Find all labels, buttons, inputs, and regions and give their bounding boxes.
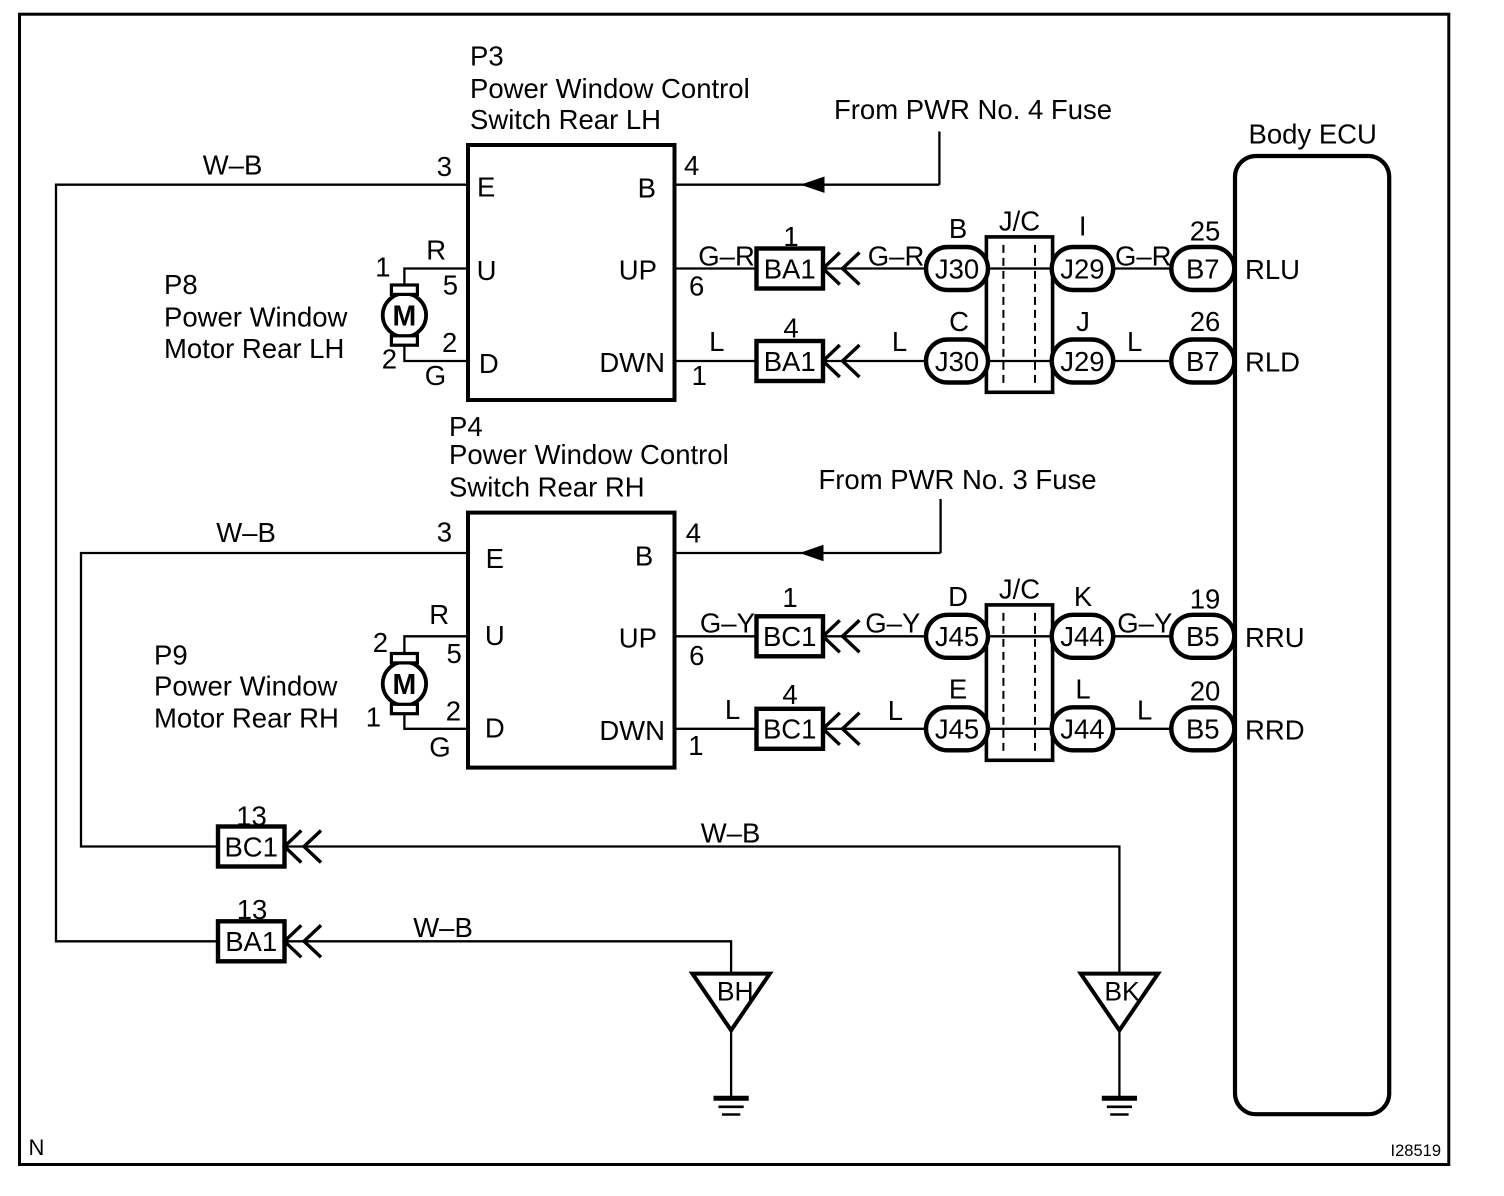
- wire label G-R (left): [698, 241, 755, 272]
- svg-text:BC1: BC1: [763, 621, 817, 652]
- svg-text:G–R: G–R: [868, 241, 925, 272]
- svg-text:RLU: RLU: [1245, 254, 1300, 285]
- svg-text:U: U: [485, 620, 505, 651]
- svg-text:BK: BK: [1104, 977, 1140, 1007]
- chevron arrows (BA1 row 1): [823, 253, 860, 285]
- svg-text:Switch Rear RH: Switch Rear RH: [449, 472, 645, 503]
- svg-text:I28519: I28519: [1391, 1142, 1441, 1160]
- svg-text:J30: J30: [935, 253, 979, 284]
- pin D: [479, 348, 499, 379]
- pin number 13 (BC1): [236, 801, 267, 832]
- svg-text:B7: B7: [1186, 253, 1220, 284]
- svg-text:6: 6: [689, 640, 704, 671]
- svg-text:Motor Rear RH: Motor Rear RH: [154, 703, 339, 734]
- svg-text:Motor Rear LH: Motor Rear LH: [164, 333, 344, 364]
- wire G : motor P9 pin 1 to P4 pin D: [404, 711, 468, 729]
- svg-text:J44: J44: [1060, 621, 1104, 652]
- node RRU: [1245, 622, 1305, 653]
- svg-text:J29: J29: [1060, 346, 1104, 377]
- svg-text:K: K: [1074, 581, 1093, 612]
- svg-text:1: 1: [375, 252, 390, 283]
- pin number 13 (BA1): [237, 894, 268, 925]
- svg-text:RRU: RRU: [1245, 622, 1305, 653]
- junction connector J30 pin B: [926, 247, 988, 290]
- label From PWR No. 4 Fuse: [834, 94, 1112, 125]
- svg-text:4: 4: [686, 517, 701, 548]
- label P8 Power Window Motor Rear LH: [164, 269, 348, 364]
- svg-text:2: 2: [373, 627, 388, 658]
- pin number 25: [1190, 215, 1221, 246]
- svg-text:Body ECU: Body ECU: [1249, 119, 1377, 150]
- svg-text:1: 1: [783, 221, 798, 252]
- label J/C (lower): [999, 574, 1040, 605]
- wire label L (right): [1127, 326, 1142, 357]
- pin letter D (J45): [948, 581, 968, 612]
- wire label L (row4 middle): [888, 695, 903, 726]
- pin number 2 (motor P8): [382, 344, 397, 375]
- connector BA1 pin 13: [218, 921, 285, 961]
- node RLU: [1245, 254, 1300, 285]
- svg-text:R: R: [426, 234, 446, 265]
- pin U: [477, 255, 497, 286]
- svg-text:P8: P8: [164, 269, 198, 300]
- wire W-B : BC1 13 to ground BK: [285, 847, 1120, 974]
- svg-text:Power Window: Power Window: [164, 302, 348, 333]
- pin B (P4): [635, 541, 653, 572]
- svg-text:G–Y: G–Y: [700, 607, 755, 638]
- pin number 5: [443, 270, 458, 301]
- pin DWN: [599, 347, 665, 378]
- wire W-B : P4 pin E to connector BC1 13: [81, 553, 468, 847]
- svg-text:Power Window: Power Window: [154, 671, 338, 702]
- wire label W-B (BC1 to BK): [701, 818, 761, 849]
- svg-text:L: L: [1127, 326, 1142, 357]
- node RLD: [1245, 347, 1300, 378]
- svg-text:L: L: [1075, 673, 1090, 704]
- svg-text:U: U: [477, 255, 497, 286]
- switch P4 box: [468, 513, 675, 768]
- svg-text:BC1: BC1: [224, 831, 278, 862]
- svg-text:BC1: BC1: [763, 714, 817, 745]
- svg-text:J29: J29: [1060, 253, 1104, 284]
- label From PWR No. 3 Fuse: [818, 464, 1096, 495]
- svg-text:3: 3: [437, 151, 452, 182]
- svg-text:B7: B7: [1186, 346, 1220, 377]
- wire label G (P9): [429, 732, 450, 763]
- pin letter L (J44): [1075, 673, 1090, 704]
- svg-text:19: 19: [1190, 583, 1221, 614]
- pin letter K (J44): [1074, 581, 1093, 612]
- svg-text:W–B: W–B: [701, 818, 761, 849]
- pin number 3 (P4): [437, 517, 452, 548]
- pin B: [638, 173, 656, 204]
- svg-text:1: 1: [692, 360, 707, 391]
- svg-text:G–Y: G–Y: [865, 607, 920, 638]
- svg-text:Power Window Control: Power Window Control: [449, 439, 729, 470]
- motor P9: [383, 654, 426, 714]
- connector B7 pin 25: [1171, 247, 1234, 290]
- svg-text:P9: P9: [154, 640, 188, 671]
- svg-text:BA1: BA1: [764, 346, 816, 377]
- wire label G-Y (middle): [865, 607, 920, 638]
- svg-text:M: M: [393, 669, 417, 701]
- svg-text:D: D: [479, 348, 499, 379]
- svg-text:RRD: RRD: [1245, 714, 1305, 745]
- svg-text:W–B: W–B: [216, 517, 276, 548]
- pin number 1 (BA1): [783, 221, 798, 252]
- svg-text:13: 13: [236, 801, 267, 832]
- svg-text:25: 25: [1190, 215, 1221, 246]
- svg-text:6: 6: [689, 271, 704, 302]
- ground BH: [692, 974, 769, 1115]
- wire label L (middle): [892, 326, 907, 357]
- switch P3 box: [468, 145, 675, 400]
- pin number 4 (BC1): [782, 679, 797, 710]
- svg-text:J/C: J/C: [999, 574, 1040, 605]
- wire L : P4 DWN to Body ECU RRD: [675, 728, 1234, 730]
- svg-text:J45: J45: [935, 714, 979, 745]
- chevron arrows (BA1 13): [285, 925, 322, 957]
- pin number 1 (P3 DWN): [692, 360, 707, 391]
- wire label R: [426, 234, 446, 265]
- pin UP: [619, 255, 657, 286]
- wire label G-R (right): [1115, 241, 1172, 272]
- connector B7 pin 26: [1171, 340, 1234, 383]
- pin letter B (J30): [949, 213, 967, 244]
- motor P8: [383, 285, 426, 345]
- svg-text:4: 4: [684, 150, 699, 181]
- svg-text:M: M: [393, 301, 417, 333]
- pin letter J (J29): [1076, 306, 1090, 337]
- pin number 4 (P4): [686, 517, 701, 548]
- pin number 26: [1190, 306, 1221, 337]
- svg-text:L: L: [892, 326, 907, 357]
- node RRD: [1245, 714, 1305, 745]
- wire G : motor P8 pin 2 to P3 pin D: [404, 344, 468, 362]
- svg-text:J44: J44: [1060, 714, 1104, 745]
- junction connector J44 pin L: [1052, 707, 1114, 750]
- svg-text:UP: UP: [619, 255, 657, 286]
- svg-text:N: N: [29, 1135, 45, 1160]
- svg-text:5: 5: [443, 270, 458, 301]
- label P3 Power Window Control Switch Rear LH: [470, 41, 750, 136]
- pin U (P4): [485, 620, 505, 651]
- pin number 3: [437, 151, 452, 182]
- svg-text:C: C: [949, 306, 969, 337]
- svg-text:5: 5: [447, 638, 462, 669]
- svg-text:J/C: J/C: [999, 206, 1040, 237]
- wire B : P3 pin B from PWR No.4 fuse: [675, 132, 940, 193]
- ground BK: [1081, 974, 1158, 1115]
- pin D (P4): [485, 713, 505, 744]
- connector BC1 pin 1: [757, 616, 824, 656]
- label P9 Power Window Motor Rear RH: [154, 640, 339, 734]
- wire label W-B (P4): [216, 517, 276, 548]
- svg-text:2: 2: [442, 327, 457, 358]
- label Body ECU: [1249, 119, 1377, 150]
- svg-text:L: L: [888, 695, 903, 726]
- junction connector J30 pin C: [926, 340, 988, 383]
- pin letter I (J29): [1079, 211, 1087, 242]
- wire label L (row4 right): [1137, 695, 1152, 726]
- chevron arrows (BC1 13): [285, 831, 322, 863]
- pin number 1 (motor P9): [366, 701, 381, 732]
- wire L : P3 DWN to Body ECU RLD: [675, 360, 1234, 362]
- pin number 1 (BC1): [782, 582, 797, 613]
- svg-text:DWN: DWN: [599, 715, 665, 746]
- svg-text:B: B: [635, 541, 653, 572]
- svg-text:UP: UP: [619, 623, 657, 654]
- svg-text:From PWR No. 4 Fuse: From PWR No. 4 Fuse: [834, 94, 1112, 125]
- connector BA1 pin 4: [757, 341, 824, 381]
- svg-text:B: B: [949, 213, 967, 244]
- pin E: [477, 172, 495, 203]
- pin E (P4): [486, 543, 504, 574]
- label J/C: [999, 206, 1040, 237]
- svg-text:BA1: BA1: [225, 926, 277, 957]
- svg-text:G–R: G–R: [698, 241, 755, 272]
- connector BA1 pin 1: [757, 249, 824, 289]
- wire label L (left): [709, 326, 724, 357]
- pin letter E (J45): [949, 673, 967, 704]
- svg-text:E: E: [486, 543, 504, 574]
- wire G-Y : P4 UP to Body ECU RRU: [675, 635, 1234, 637]
- svg-text:J45: J45: [935, 621, 979, 652]
- wire label W-B: [203, 150, 263, 181]
- pin number 4: [684, 150, 699, 181]
- page letter N: [29, 1135, 45, 1160]
- connector BC1 pin 4: [757, 709, 824, 749]
- wire R : motor P8 pin 1 to P3 pin U: [404, 269, 468, 287]
- svg-text:J: J: [1076, 306, 1090, 337]
- pin UP (P4): [619, 623, 657, 654]
- svg-text:L: L: [1137, 695, 1152, 726]
- svg-text:W–B: W–B: [203, 150, 263, 181]
- pin number 2 (motor P9): [373, 627, 388, 658]
- pin number 20: [1190, 676, 1221, 707]
- label P4 Power Window Control Switch Rear RH: [449, 411, 729, 503]
- svg-text:BA1: BA1: [764, 253, 816, 284]
- svg-text:P3: P3: [470, 41, 504, 72]
- svg-text:I: I: [1079, 211, 1087, 242]
- svg-text:D: D: [485, 713, 505, 744]
- junction connector J29 pin J: [1052, 340, 1114, 383]
- junction connector J45 pin E: [926, 707, 988, 750]
- svg-text:E: E: [949, 673, 967, 704]
- pin number 2 (P4 D): [446, 695, 461, 726]
- pin number 5 (P4): [447, 638, 462, 669]
- svg-text:J30: J30: [935, 346, 979, 377]
- svg-text:R: R: [429, 599, 449, 630]
- svg-text:E: E: [477, 172, 495, 203]
- svg-text:G: G: [425, 360, 446, 391]
- svg-text:L: L: [725, 694, 740, 725]
- junction block J/C (lower): [986, 605, 1052, 760]
- pin number 19: [1190, 583, 1221, 614]
- wire B : P4 pin B from PWR No.3 fuse: [675, 499, 941, 561]
- svg-text:2: 2: [446, 695, 461, 726]
- wire label G-R (middle): [868, 241, 925, 272]
- svg-text:B5: B5: [1186, 714, 1220, 745]
- svg-text:BH: BH: [717, 977, 754, 1007]
- pin number 1 (motor P8): [375, 252, 390, 283]
- figure number I28519: [1391, 1142, 1441, 1160]
- pin number 2 (P3 D): [442, 327, 457, 358]
- svg-text:20: 20: [1190, 676, 1221, 707]
- wire W-B : P3 pin E to connector BA1 13: [56, 185, 468, 942]
- svg-text:4: 4: [782, 679, 797, 710]
- svg-text:1: 1: [688, 730, 703, 761]
- svg-text:B: B: [638, 173, 656, 204]
- svg-text:G–Y: G–Y: [1117, 607, 1172, 638]
- svg-text:L: L: [709, 326, 724, 357]
- wire label G-Y (left): [700, 607, 755, 638]
- svg-text:W–B: W–B: [413, 912, 473, 943]
- connector B5 pin 19: [1171, 615, 1234, 658]
- svg-text:D: D: [948, 581, 968, 612]
- pin number 6 (P4): [689, 640, 704, 671]
- wire label G: [425, 360, 446, 391]
- wire W-B : BA1 13 to ground BH: [285, 941, 732, 973]
- chevron arrows (BC1 row 4): [823, 713, 860, 745]
- pin DWN (P4): [599, 715, 665, 746]
- svg-text:RLD: RLD: [1245, 347, 1300, 378]
- svg-text:1: 1: [366, 701, 381, 732]
- svg-text:DWN: DWN: [599, 347, 665, 378]
- svg-text:Power Window Control: Power Window Control: [470, 73, 750, 104]
- wire R : motor P9 pin 2 to P4 pin U: [404, 636, 468, 654]
- wire label L (row4 left): [725, 694, 740, 725]
- svg-text:P4: P4: [449, 411, 483, 442]
- pin number 1 (P4 DWN): [688, 730, 703, 761]
- junction block J/C (upper): [986, 237, 1052, 392]
- svg-text:Switch Rear LH: Switch Rear LH: [470, 104, 661, 135]
- junction connector J29 pin I: [1052, 247, 1114, 290]
- svg-text:G–R: G–R: [1115, 241, 1172, 272]
- pin letter C (J30): [949, 306, 969, 337]
- svg-text:G: G: [429, 732, 450, 763]
- svg-text:3: 3: [437, 517, 452, 548]
- chevron arrows (BC1 row 3): [823, 620, 860, 652]
- svg-text:13: 13: [237, 894, 268, 925]
- svg-text:From PWR No. 3 Fuse: From PWR No. 3 Fuse: [818, 464, 1096, 495]
- pin number 4 (BA1): [783, 313, 798, 344]
- svg-text:B5: B5: [1186, 621, 1220, 652]
- wire label G-Y (right): [1117, 607, 1172, 638]
- svg-text:2: 2: [382, 344, 397, 375]
- pin number 6: [689, 271, 704, 302]
- chevron arrows (BA1 row 2): [823, 345, 860, 377]
- svg-text:26: 26: [1190, 306, 1221, 337]
- connector B5 pin 20: [1171, 707, 1234, 750]
- junction connector J44 pin K: [1052, 615, 1114, 658]
- wire G-R : P3 UP to Body ECU RLU: [675, 267, 1234, 269]
- Body ECU box: [1235, 156, 1389, 1114]
- svg-text:4: 4: [783, 313, 798, 344]
- junction connector J45 pin D: [926, 615, 988, 658]
- svg-text:1: 1: [782, 582, 797, 613]
- wire label R (P9): [429, 599, 449, 630]
- wire label W-B (BA1 to BH): [413, 912, 473, 943]
